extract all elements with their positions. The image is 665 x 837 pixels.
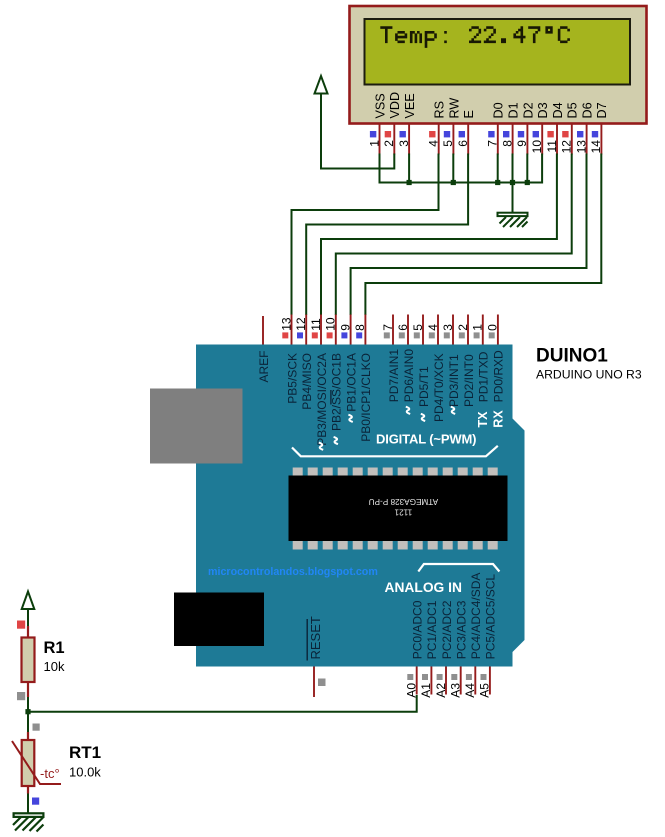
svg-text:12: 12 xyxy=(294,317,308,331)
USB connector xyxy=(150,389,243,464)
svg-text:PD7/AIN1: PD7/AIN1 xyxy=(387,349,401,403)
svg-text:A2: A2 xyxy=(434,683,448,698)
svg-text:0: 0 xyxy=(486,324,500,331)
svg-text:PB1/OC1A: PB1/OC1A xyxy=(344,353,358,412)
svg-text:ATMEGA328 P-PU: ATMEGA328 P-PU xyxy=(369,497,439,506)
svg-text:PB4/MISO: PB4/MISO xyxy=(300,353,314,410)
svg-text:6: 6 xyxy=(456,140,470,147)
svg-text:A5: A5 xyxy=(478,683,492,698)
svg-text:A4: A4 xyxy=(463,683,477,698)
analog pin name labels xyxy=(411,573,498,660)
svg-text:PC0/ADC0: PC0/ADC0 xyxy=(411,600,425,659)
svg-text:PC1/ADC1: PC1/ADC1 xyxy=(425,600,439,659)
RT1 top square xyxy=(33,724,40,731)
power jack xyxy=(174,593,264,647)
LCD text Temp: 22.47°C xyxy=(380,26,570,48)
svg-text:RW: RW xyxy=(447,98,461,119)
svg-text:D3: D3 xyxy=(536,102,550,118)
wire bus to ground xyxy=(512,183,514,213)
svg-text:PD3/INT1: PD3/INT1 xyxy=(447,354,461,407)
svg-text:RESET: RESET xyxy=(308,616,323,659)
svg-text:11: 11 xyxy=(545,140,559,153)
RESET pin stub xyxy=(313,667,315,698)
wire D4->11 xyxy=(321,154,557,316)
R1 top square xyxy=(17,621,25,629)
svg-text:PD6/AIN0: PD6/AIN0 xyxy=(402,349,416,403)
svg-text:8: 8 xyxy=(353,324,367,331)
svg-text:1: 1 xyxy=(471,324,485,331)
microcontroller ATMEGA328 chip xyxy=(289,476,508,542)
svg-text:PC5/ADC5/SCL: PC5/ADC5/SCL xyxy=(484,574,498,660)
svg-text:PC4/ADC4/SDA: PC4/ADC4/SDA xyxy=(469,573,483,660)
junction node xyxy=(25,709,30,714)
svg-text:PC3/ADC3: PC3/ADC3 xyxy=(455,600,469,659)
svg-text:PD0/RXD: PD0/RXD xyxy=(492,350,506,402)
svg-text:PB3/MOSI/OC2A: PB3/MOSI/OC2A xyxy=(315,353,329,446)
svg-text:8: 8 xyxy=(500,140,514,147)
svg-text:12: 12 xyxy=(560,140,574,154)
svg-text:6: 6 xyxy=(396,324,410,331)
wire ground bus VSS-D3 xyxy=(380,154,543,183)
svg-text:14: 14 xyxy=(589,140,603,154)
svg-text:5: 5 xyxy=(441,140,455,147)
wire D5->10 xyxy=(336,154,572,316)
svg-text:E: E xyxy=(462,110,476,118)
digital pin numbers xyxy=(279,317,499,331)
thermistor RT1 xyxy=(12,732,61,794)
svg-text:D1: D1 xyxy=(507,102,521,118)
svg-text:3: 3 xyxy=(441,324,455,331)
LCD pins 1-14 stubs xyxy=(380,124,602,155)
power +5V arrow (LCD VDD) xyxy=(315,76,328,94)
analog bracket xyxy=(418,564,499,572)
LCD screen xyxy=(365,19,631,85)
svg-text:D5: D5 xyxy=(566,102,580,118)
svg-text:R1: R1 xyxy=(44,639,65,657)
LCD display LCD1 body xyxy=(350,6,647,124)
ground symbol (RT1) xyxy=(13,813,43,831)
svg-text:PB0/ICP1/CLKO: PB0/ICP1/CLKO xyxy=(359,353,373,442)
wire RT1 to ground xyxy=(27,794,29,814)
digital bracket xyxy=(292,446,498,457)
svg-text:VSS: VSS xyxy=(373,93,387,118)
svg-text:PD5/T1: PD5/T1 xyxy=(417,366,431,407)
svg-text:VEE: VEE xyxy=(403,93,417,118)
svg-text:1: 1 xyxy=(367,140,381,147)
svg-text:PB5/SCK: PB5/SCK xyxy=(285,353,299,404)
svg-text:10k: 10k xyxy=(44,659,65,674)
analog pin state squares xyxy=(407,674,486,680)
svg-text:DUINO1: DUINO1 xyxy=(536,345,608,366)
Arduino AREF pin stub xyxy=(262,316,264,345)
svg-text:-tc°: -tc° xyxy=(40,766,60,781)
svg-text:D2: D2 xyxy=(521,102,535,118)
svg-text:PD4/T0/XCK: PD4/T0/XCK xyxy=(432,353,446,422)
svg-text:13: 13 xyxy=(279,317,293,331)
ground symbol (LCD) xyxy=(498,213,528,227)
wire D6->9 xyxy=(351,154,587,316)
svg-text:5: 5 xyxy=(411,324,425,331)
svg-text:RX: RX xyxy=(492,410,506,428)
wires VEE RW D0 D1 D2 to bus xyxy=(409,154,527,183)
svg-text:microcontrolandos.blogspot.com: microcontrolandos.blogspot.com xyxy=(208,566,378,578)
svg-text:RT1: RT1 xyxy=(69,743,101,762)
R1 bottom square xyxy=(17,692,25,700)
Arduino UNO board DUINO1 xyxy=(196,345,525,667)
svg-text:4: 4 xyxy=(427,140,441,147)
svg-text:D0: D0 xyxy=(492,102,506,118)
labels TX RX xyxy=(476,410,505,428)
power +5V arrow (R1) xyxy=(22,592,35,610)
svg-text:7: 7 xyxy=(381,324,395,331)
svg-text:AREF: AREF xyxy=(257,351,271,383)
wire R1 to node xyxy=(27,697,29,732)
PWM tilde marks xyxy=(319,407,455,450)
wire +5V to R1 xyxy=(27,609,29,626)
svg-text:2: 2 xyxy=(456,324,470,331)
RESET square xyxy=(318,679,326,687)
svg-text:1121: 1121 xyxy=(394,508,412,517)
svg-text:11: 11 xyxy=(309,318,323,331)
LCD pin name labels xyxy=(373,92,609,119)
svg-text:2: 2 xyxy=(382,140,396,147)
digital pin state squares xyxy=(282,332,494,338)
svg-text:PD1/TXD: PD1/TXD xyxy=(477,351,491,402)
Arduino digital pin stubs 13-0 xyxy=(292,315,498,345)
svg-text:TX: TX xyxy=(476,411,490,428)
svg-text:ANALOG IN: ANALOG IN xyxy=(385,580,462,595)
junction dots on ground bus xyxy=(407,180,530,185)
svg-text:7: 7 xyxy=(486,140,500,147)
svg-text:VDD: VDD xyxy=(388,92,402,119)
Arduino top pin name labels xyxy=(257,349,506,446)
svg-text:RS: RS xyxy=(433,101,447,119)
svg-text:D4: D4 xyxy=(551,102,565,118)
svg-text:D6: D6 xyxy=(581,102,595,118)
IC pads xyxy=(293,468,498,550)
svg-text:DIGITAL (~PWM): DIGITAL (~PWM) xyxy=(376,432,476,447)
svg-text:D7: D7 xyxy=(595,102,609,118)
svg-text:13: 13 xyxy=(574,140,588,154)
analog pin numbers A0-A5 xyxy=(405,683,492,698)
wire D7->8 xyxy=(365,154,601,316)
wire node to A0 xyxy=(28,695,417,712)
LCD pin numbers 1-14 xyxy=(367,140,603,154)
label RESET xyxy=(307,616,323,660)
svg-text:PC2/ADC2: PC2/ADC2 xyxy=(440,600,454,659)
wire VDD to +5V xyxy=(321,94,394,169)
analog pin stubs A0-A5 xyxy=(417,667,490,695)
svg-text:4: 4 xyxy=(426,324,440,331)
svg-text:PD2/INT0: PD2/INT0 xyxy=(462,354,476,407)
wire RS->13 xyxy=(292,154,439,316)
wire E->12 xyxy=(306,154,468,316)
svg-text:9: 9 xyxy=(338,324,352,331)
overline on SS xyxy=(330,390,332,405)
resistor R1 xyxy=(22,626,35,697)
chip label ATMEGA328 P-PU 1121 xyxy=(369,497,439,517)
svg-text:10: 10 xyxy=(530,140,544,154)
svg-text:ARDUINO UNO R3: ARDUINO UNO R3 xyxy=(536,368,642,382)
LCD pin state squares xyxy=(370,131,598,137)
svg-text:9: 9 xyxy=(515,140,529,147)
svg-text:PB2/SS/OC1B: PB2/SS/OC1B xyxy=(330,353,344,431)
RT1 bottom square xyxy=(32,798,39,805)
svg-text:3: 3 xyxy=(397,140,411,147)
svg-text:A3: A3 xyxy=(449,683,463,698)
svg-text:A1: A1 xyxy=(419,683,433,698)
svg-text:10: 10 xyxy=(324,317,338,331)
svg-text:10.0k: 10.0k xyxy=(69,765,101,780)
